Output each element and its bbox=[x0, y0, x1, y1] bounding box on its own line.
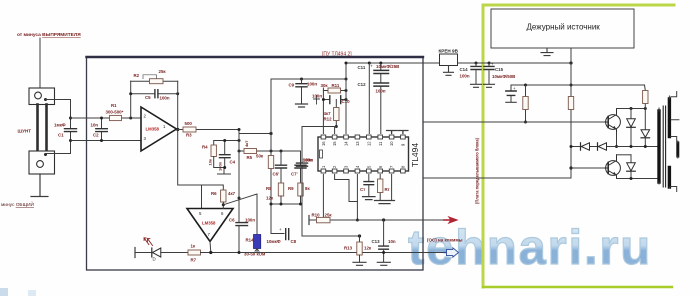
wire x271 vertical from rail to divider bbox=[270, 79, 272, 234]
frame top accent bbox=[87, 56, 424, 58]
wire R4/C4 top row bbox=[214, 141, 239, 146]
standby output drop bbox=[570, 48, 572, 63]
wire feedback right vertical bbox=[177, 81, 179, 129]
R10 row y220 bbox=[308, 216, 310, 225]
wire to C8 bbox=[271, 233, 284, 235]
capacitor C7' bbox=[300, 151, 302, 183]
svg-text:11: 11 bbox=[378, 141, 383, 146]
svg-text:10к: 10к bbox=[208, 159, 213, 165]
capacitor Ct pin5 bbox=[368, 175, 370, 197]
series diode A bbox=[580, 143, 582, 150]
series diode B bbox=[597, 143, 599, 150]
svg-text:100п: 100п bbox=[312, 94, 322, 99]
svg-text:+: + bbox=[513, 86, 516, 91]
resistor R13 bbox=[359, 236, 361, 242]
resistor R5 bbox=[244, 149, 257, 154]
wire y236 row bbox=[302, 235, 360, 237]
svg-text:10мкФ: 10мкФ bbox=[267, 239, 281, 244]
svg-text:100n: 100n bbox=[460, 74, 470, 79]
resistor R11 bbox=[323, 90, 346, 92]
svg-text:C4: C4 bbox=[230, 160, 236, 165]
wire shunt bottom to C1 node bbox=[46, 141, 71, 154]
node op-amp2 output bbox=[209, 242, 212, 253]
svg-text:10мкФ/50В: 10мкФ/50В bbox=[492, 74, 515, 79]
LED D with terminal bbox=[134, 248, 136, 258]
svg-text:13: 13 bbox=[355, 141, 360, 146]
extra winding bar right bbox=[676, 143, 679, 156]
drive wire y178 bbox=[423, 177, 571, 179]
svg-text:C12: C12 bbox=[358, 82, 367, 87]
node C1 top bbox=[69, 117, 72, 120]
resistor at x525 bbox=[525, 85, 527, 122]
pin12 vertical bbox=[368, 63, 370, 134]
svg-text:8к: 8к bbox=[305, 186, 310, 191]
svg-text:12к: 12к bbox=[364, 246, 372, 251]
svg-text:4к7: 4к7 bbox=[324, 111, 332, 116]
ground under standby box bbox=[541, 48, 553, 56]
shunt bottom terminal box bbox=[29, 151, 55, 174]
wire R6 to pin6 bbox=[222, 202, 224, 209]
svg-text:10: 10 bbox=[389, 141, 394, 146]
svg-text:R3: R3 bbox=[186, 133, 192, 138]
svg-text:R14: R14 bbox=[246, 238, 255, 243]
x302 vertical with 100п cap bbox=[301, 127, 303, 237]
ground under Rt/pin7 bbox=[375, 201, 395, 204]
svg-text:30к: 30к bbox=[321, 83, 329, 88]
capacitor C14 bbox=[475, 63, 477, 84]
transistor Q1 bbox=[606, 115, 621, 130]
wire diagonal pin6 to R14 bbox=[223, 194, 257, 235]
wire Q2 base y168 bbox=[571, 167, 608, 169]
capacitor C9 to ground bbox=[301, 79, 303, 104]
chip pin1 inner mark bbox=[320, 150, 323, 158]
svg-text:R13: R13 bbox=[344, 246, 353, 251]
svg-text:Rт: Rт bbox=[385, 187, 391, 192]
wire LED to R7 bbox=[161, 252, 188, 254]
secondary winding bars bbox=[668, 99, 671, 187]
diode at x631 lower bbox=[630, 155, 632, 179]
svg-text:R5: R5 bbox=[247, 155, 253, 160]
capacitor C13 bbox=[383, 220, 385, 262]
node output U1.1 bbox=[176, 128, 179, 131]
wire C5 row bbox=[131, 93, 178, 95]
resistor R8 bbox=[278, 183, 283, 196]
svg-text:C8: C8 bbox=[291, 239, 297, 244]
ground under Ct bbox=[363, 197, 376, 200]
svg-text:500: 500 bbox=[185, 121, 193, 126]
svg-text:C11: C11 bbox=[358, 65, 366, 70]
pin1 drop to R10 bbox=[322, 175, 324, 218]
secondary terminals bbox=[671, 92, 679, 192]
pins top bbox=[321, 135, 405, 139]
svg-text:КРЕН 9В: КРЕН 9В bbox=[439, 49, 459, 54]
diode at x645 bbox=[641, 130, 650, 138]
rail y63 right of KREN bbox=[458, 62, 572, 64]
svg-text:(Плата переделываемого блока): (Плата переделываемого блока) bbox=[475, 137, 480, 204]
standby supply box Дежурный источник bbox=[491, 9, 634, 48]
wire y85 row bbox=[511, 84, 645, 86]
green border frame (left, top, bottom) bbox=[483, 5, 674, 287]
ground минус ОБЩИЙ bbox=[31, 174, 48, 197]
svg-text:D: D bbox=[153, 257, 156, 262]
resistor Rt pin6 bbox=[379, 175, 381, 201]
ground under R13 bbox=[353, 262, 366, 265]
diode at x631 upper bbox=[630, 109, 632, 147]
svg-text:4к7: 4к7 bbox=[228, 191, 236, 196]
pin15 wire bbox=[334, 127, 336, 134]
antenna bars above pins 10,9 bbox=[387, 131, 397, 134]
wire output to node x239 jog bbox=[239, 130, 271, 134]
core lines bbox=[663, 106, 665, 187]
svg-text:минус ОБЩИЙ: минус ОБЩИЙ bbox=[1, 200, 35, 208]
svg-text:10n: 10n bbox=[91, 123, 99, 128]
svg-text:50к: 50к bbox=[256, 154, 264, 159]
svg-text:(ОС) на клеммы: (ОС) на клеммы bbox=[427, 238, 463, 243]
watermark tehnari.ru bbox=[408, 221, 652, 275]
drive wire y122 to Q1 bbox=[423, 121, 608, 123]
svg-text:TL494: TL494 bbox=[410, 143, 420, 167]
svg-text:R7: R7 bbox=[191, 258, 197, 263]
svg-text:R4: R4 bbox=[202, 145, 208, 150]
R11/C10 left vertical to pin16 bbox=[322, 88, 324, 134]
node C1 bottom bbox=[69, 139, 72, 142]
capacitor C5 bbox=[155, 90, 158, 98]
svg-text:+: + bbox=[370, 64, 373, 69]
svg-text:25к: 25к bbox=[159, 69, 167, 74]
svg-text:C6': C6' bbox=[273, 172, 280, 177]
ground under KREN bbox=[444, 66, 454, 76]
resistor R4 bbox=[211, 145, 216, 157]
svg-text:10n: 10n bbox=[388, 239, 396, 244]
resistor R9 bbox=[298, 183, 303, 196]
svg-text:C6: C6 bbox=[229, 218, 235, 223]
Q1 emitter to center row bbox=[616, 133, 618, 147]
resistor 50k bbox=[268, 156, 273, 169]
wire pin5 row extension to R6 bbox=[202, 185, 224, 190]
voltage regulator КРЕН 9В bbox=[440, 54, 458, 66]
svg-text:LM358: LM358 bbox=[202, 221, 216, 226]
svg-text:C14: C14 bbox=[460, 67, 469, 72]
svg-text:12к: 12к bbox=[266, 196, 274, 201]
red out arrow bbox=[444, 219, 451, 221]
svg-text:100п: 100п bbox=[376, 89, 386, 94]
ground under C13 bbox=[377, 262, 390, 265]
pin numbers bottom bbox=[321, 165, 406, 168]
wire R5 row bbox=[239, 150, 301, 152]
shunt top terminal box bbox=[29, 88, 55, 105]
svg-text:Дежурный источник: Дежурный источник bbox=[527, 23, 601, 32]
svg-text:R10: R10 bbox=[312, 213, 321, 218]
svg-text:C7': C7' bbox=[291, 172, 298, 177]
wire to pin3 (bottom) bbox=[71, 140, 142, 142]
capacitor C2 bbox=[101, 118, 103, 141]
svg-text:+: + bbox=[279, 227, 282, 232]
capacitor C10 bbox=[323, 99, 346, 101]
svg-text:1к: 1к bbox=[191, 244, 196, 249]
wire feedback left vertical bbox=[130, 81, 132, 118]
svg-text:300-500*: 300-500* bbox=[106, 110, 124, 115]
svg-text:R6: R6 bbox=[211, 191, 217, 196]
ground under C14 bbox=[471, 84, 482, 87]
wire to pin2 (top) bbox=[71, 117, 142, 119]
svg-text:25к: 25к bbox=[325, 213, 333, 218]
Q2 collector row bbox=[617, 154, 632, 156]
bottom rail bbox=[201, 252, 447, 254]
resistor R3 bbox=[183, 127, 196, 132]
svg-text:LM358: LM358 bbox=[146, 127, 160, 132]
svg-text:100п: 100п bbox=[218, 161, 223, 171]
capacitor C8 electrolytic bbox=[286, 229, 289, 240]
pin2 jog wire bbox=[335, 175, 358, 202]
capacitor C11 electrolytic on pin11 line bbox=[380, 63, 382, 83]
LED light arrows bbox=[144, 238, 153, 246]
svg-text:10мкФ/25В: 10мкФ/25В bbox=[376, 64, 399, 69]
bottom row y178.5 bbox=[617, 178, 660, 180]
svg-text:от минуса ВЫПРЯМИТЕЛЯ: от минуса ВЫПРЯМИТЕЛЯ bbox=[17, 32, 81, 38]
pin14 vertical from rail y63 bbox=[345, 63, 347, 134]
svg-text:15: 15 bbox=[332, 141, 337, 146]
wire output row bbox=[177, 129, 240, 131]
trimmer R14 bbox=[254, 235, 261, 249]
svg-text:C1: C1 bbox=[58, 133, 64, 138]
resistor R6 bbox=[221, 190, 226, 202]
svg-text:C13: C13 bbox=[372, 239, 381, 244]
primary winding bars bbox=[657, 111, 660, 182]
svg-text:R8: R8 bbox=[266, 186, 272, 191]
Q1 collector row y108.5 bbox=[617, 108, 646, 110]
capacitor C1 bbox=[70, 118, 72, 141]
svg-text:ШУНТ: ШУНТ bbox=[18, 129, 32, 134]
svg-text:4к7: 4к7 bbox=[244, 140, 249, 147]
wire R4/C4 bottom join bbox=[214, 157, 231, 175]
x571 vertical chain bbox=[570, 63, 572, 178]
watermark fragment bottom-left bbox=[0, 288, 36, 296]
capacitor C12 bbox=[380, 86, 382, 133]
svg-text:16: 16 bbox=[321, 141, 326, 146]
pins bottom bbox=[321, 169, 405, 173]
op-amp U1.1 LM358 bbox=[141, 107, 177, 151]
small cap stub left of C10 bbox=[314, 96, 320, 105]
pin7 ground drop bbox=[391, 175, 393, 201]
capacitor C15 electrolytic bbox=[488, 63, 490, 84]
rail y63 from pin13/14 area to KREN bbox=[346, 62, 440, 64]
resistor R2 bbox=[150, 79, 164, 84]
svg-text:C5: C5 bbox=[145, 95, 151, 100]
ground under C15 bbox=[484, 84, 495, 87]
blue out arrow bbox=[444, 252, 448, 254]
svg-text:100n: 100n bbox=[245, 218, 255, 223]
capacitor C4 bbox=[220, 155, 231, 158]
op-amp U1.2 LM358 (points down) bbox=[187, 209, 233, 242]
svg-text:100п: 100п bbox=[307, 82, 317, 87]
svg-text:100n: 100n bbox=[160, 96, 170, 101]
svg-text:1мкФ: 1мкФ bbox=[54, 123, 66, 128]
wire R2 row bbox=[131, 80, 178, 82]
svg-text:R9: R9 bbox=[288, 186, 294, 191]
wire x239 vertical to C6 and bottom rail bbox=[238, 134, 240, 253]
resistor R1 bbox=[110, 115, 122, 120]
main board frame bbox=[87, 57, 424, 270]
svg-text:R2: R2 bbox=[134, 73, 140, 78]
svg-text:+: + bbox=[491, 62, 494, 67]
TL494 chip body bbox=[318, 137, 409, 171]
rail y79 bbox=[271, 78, 346, 80]
wire shunt top to C1 node bbox=[46, 100, 71, 119]
svg-text:R12: R12 bbox=[324, 117, 333, 122]
wire y126.5 row left of chip bbox=[302, 126, 336, 128]
svg-text:R1: R1 bbox=[111, 103, 117, 108]
svg-text:[ПУ ТЛ494 2]: [ПУ ТЛ494 2] bbox=[322, 52, 352, 58]
wire divider bottom row bbox=[271, 203, 301, 205]
center row y146.5 with two series diodes bbox=[571, 146, 659, 148]
capacitor C6' bbox=[280, 151, 282, 183]
svg-text:R11: R11 bbox=[332, 83, 340, 88]
pin numbers top bbox=[321, 141, 406, 146]
wire x178 down from output bbox=[178, 130, 202, 209]
transistor Q2 bbox=[606, 161, 621, 176]
svg-text:100п: 100п bbox=[303, 158, 313, 163]
svg-text:C2: C2 bbox=[93, 133, 99, 138]
svg-text:C15: C15 bbox=[495, 67, 504, 72]
wire from label to shunt bbox=[39, 38, 41, 88]
svg-text:Cт: Cт bbox=[360, 187, 366, 192]
resistor R12 bbox=[335, 100, 337, 127]
resistor R7 bbox=[188, 250, 201, 255]
resistor on x571 bbox=[568, 97, 573, 110]
pin4 drop bbox=[356, 175, 358, 221]
svg-text:tehnari.ru: tehnari.ru bbox=[408, 221, 652, 275]
svg-text:C9: C9 bbox=[289, 83, 295, 88]
electrolytic cap at x511 bbox=[510, 85, 512, 102]
node pin2 feedback bbox=[129, 117, 132, 120]
ground under C9 bbox=[296, 104, 308, 107]
shunt bars bbox=[36, 105, 39, 152]
resistor top right x645 bbox=[644, 85, 647, 130]
capacitor C6 bbox=[236, 223, 248, 226]
svg-text:12: 12 bbox=[366, 141, 371, 146]
svg-text:14: 14 bbox=[344, 141, 349, 146]
